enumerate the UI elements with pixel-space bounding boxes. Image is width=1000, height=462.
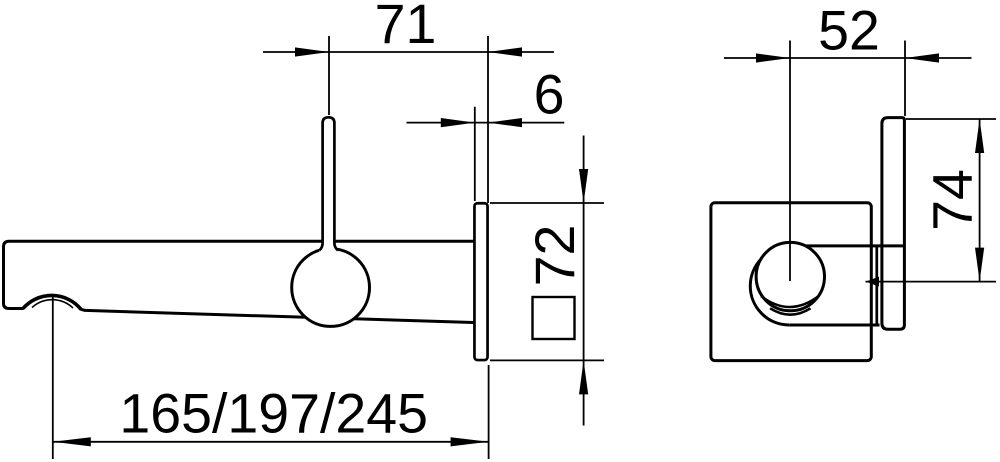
arrowhead 72 bottom [579, 360, 588, 394]
extension line wall face lower [488, 365, 490, 459]
aerator inner arc [32, 300, 73, 308]
lever blade (edge view) [882, 118, 905, 330]
arrowhead 6 right [488, 118, 522, 127]
hub left edge [875, 246, 878, 325]
extension line knob axis [789, 41, 791, 282]
extension line lever axis [328, 36, 330, 115]
extension line knob axis horizontal [866, 281, 997, 283]
dimension line 165/197/245 [53, 441, 489, 443]
arrowhead 71 right [488, 47, 522, 56]
extension line plate top [490, 202, 604, 204]
arrowhead 165 right [451, 437, 489, 446]
svg-text:72: 72 [524, 225, 586, 287]
arrowhead 72 top [579, 169, 588, 203]
svg-text:74: 74 [922, 169, 984, 231]
knob face inner bottom arc [761, 296, 819, 307]
svg-text:52: 52 [818, 0, 880, 62]
lever stem fill (side view) [319, 117, 338, 259]
dimension line 71 [263, 51, 554, 53]
arrowhead 165 left [53, 437, 91, 446]
knob outer silhouette arc [750, 247, 789, 325]
dimension line 74 [979, 119, 981, 282]
extension line plate bottom [490, 359, 604, 361]
square wall plate (front view) [711, 203, 871, 361]
svg-text:71: 71 [375, 0, 437, 55]
extension line lever top [906, 118, 996, 120]
knob skirt bottom arc [770, 308, 810, 314]
dimension line 52 [724, 57, 972, 59]
knob body bottom line [789, 324, 879, 327]
arrowhead 74 top [975, 119, 984, 153]
arrowhead 74 bottom [975, 248, 984, 282]
arrowhead 52 right [905, 53, 939, 62]
spout body outline (side view) [4, 241, 474, 322]
extension line wall face [487, 36, 489, 203]
dimension line 72 [583, 136, 585, 426]
lever stem outline (side view) [319, 117, 338, 250]
svg-text:6: 6 [534, 63, 565, 125]
arrowhead knob axis pointer [866, 277, 879, 287]
square symbol [533, 297, 575, 339]
extension line lever outer face [904, 41, 906, 117]
knob body top line [806, 244, 905, 247]
arrowhead 6 left [441, 118, 475, 127]
dimension line 6 [407, 122, 565, 124]
aerator outer arc [23, 295, 81, 309]
knob face circle [756, 242, 824, 310]
extension line aerator axis [52, 297, 54, 459]
arrowhead 71 left [295, 47, 329, 56]
extension line plate front [474, 107, 476, 201]
wall plate strip (side view) [474, 203, 487, 360]
svg-text:165/197/245: 165/197/245 [119, 383, 428, 445]
arrowhead 52 left [756, 53, 790, 62]
mixer knob circle (side view) [292, 249, 370, 327]
